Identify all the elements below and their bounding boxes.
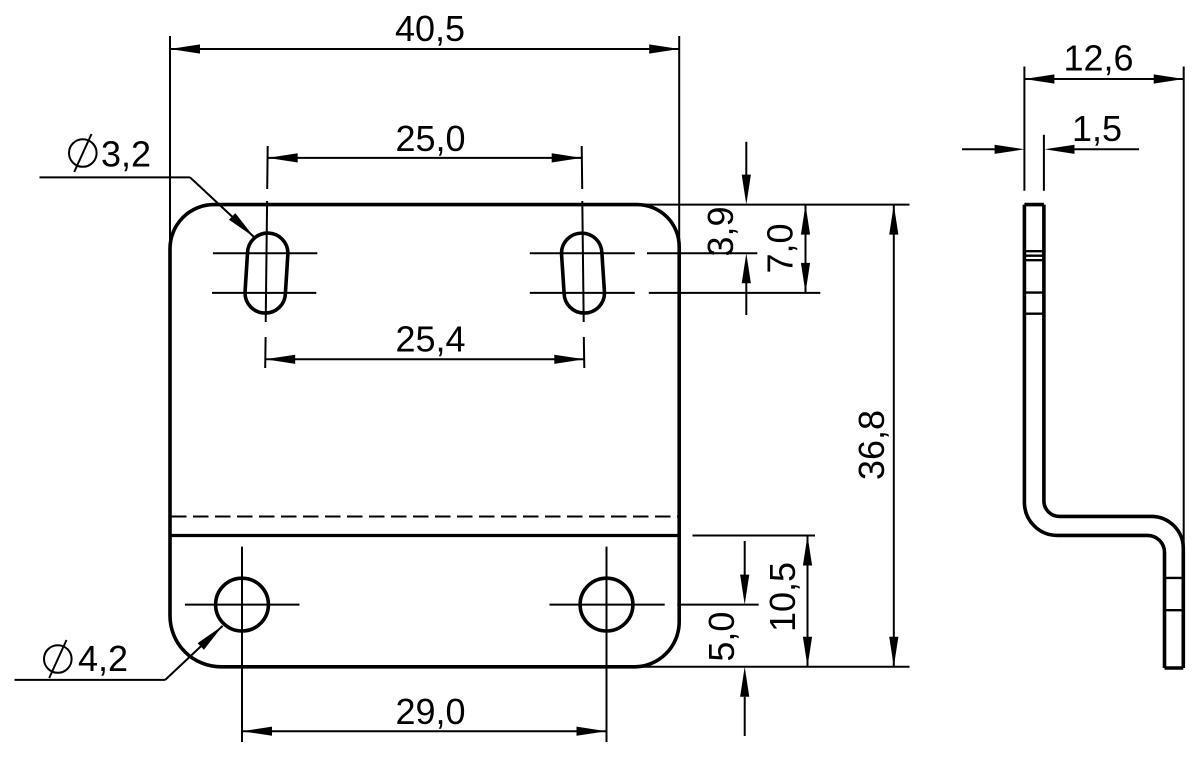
svg-text:29,0: 29,0 bbox=[395, 691, 465, 732]
side view: top end cap bbox=[1024, 203, 1044, 207]
dimension 40,5: extension lines bbox=[169, 36, 171, 260]
right hole horizontal centerline bbox=[550, 604, 665, 606]
dimension 7,0: line, arrows, text bbox=[805, 205, 807, 293]
dimension 25,4: line, arrows, text bbox=[265, 358, 584, 360]
left slot upper crossline bbox=[213, 252, 317, 254]
dimension 40,5: line, arrows, text bbox=[170, 48, 679, 50]
right slot (obround, slightly tilted) bbox=[561, 233, 604, 313]
label diameter 4,2: leader line bbox=[15, 679, 166, 681]
right slot upper crossline bbox=[530, 252, 635, 254]
left hole horizontal centerline bbox=[185, 604, 300, 606]
dimension 12,6: line, arrows, text bbox=[1024, 78, 1183, 80]
dimension 25,0: line, arrows, text bbox=[268, 157, 582, 159]
side view: inner profile (right face of top strip, step top, right face of lower strip) bbox=[1044, 205, 1183, 668]
left slot vertical centerline segments bbox=[266, 146, 269, 189]
front view: plate outline bbox=[170, 205, 679, 667]
dimension 7,0: extension line bbox=[649, 292, 821, 294]
side view: bottom end cap bbox=[1165, 666, 1184, 670]
svg-text:1,5: 1,5 bbox=[1072, 108, 1122, 149]
dimension 10,5: line, arrows, text bbox=[807, 536, 809, 667]
dimension 1,5: outside arrows and shafts bbox=[962, 148, 995, 150]
dimension 1,5: extension line bbox=[1043, 135, 1045, 191]
front view: bend tangent edge line bbox=[170, 534, 679, 537]
svg-text:3,9: 3,9 bbox=[700, 206, 741, 256]
svg-text:36,8: 36,8 bbox=[851, 410, 892, 480]
dimension 3,9: extension line bbox=[647, 252, 757, 254]
right bottom hole bbox=[580, 578, 633, 631]
right hole vertical centerline / extension to 29,0 bbox=[606, 547, 608, 742]
dimension 5,0: outside arrows and shafts bbox=[744, 541, 746, 575]
svg-text:3,2: 3,2 bbox=[101, 134, 151, 175]
top edge extension line (36,8) bbox=[637, 204, 910, 206]
dimension 5,0: extension line (hole centerline extended) bbox=[677, 604, 758, 606]
svg-text:4,2: 4,2 bbox=[78, 638, 128, 679]
label diameter 3,2: leader line bbox=[40, 176, 191, 178]
svg-text:5,0: 5,0 bbox=[701, 612, 742, 662]
svg-text:12,6: 12,6 bbox=[1063, 38, 1133, 79]
side view: hole projection marks on lower strip bbox=[1165, 577, 1184, 579]
label diameter 4,2: leader arrowhead bbox=[198, 626, 223, 650]
svg-text:40,5: 40,5 bbox=[395, 8, 465, 49]
dimension 36,8: line, arrows, text bbox=[893, 205, 895, 667]
left hole vertical centerline / extension to 29,0 bbox=[241, 547, 243, 742]
svg-text:10,5: 10,5 bbox=[762, 562, 803, 632]
svg-text:25,4: 25,4 bbox=[395, 319, 465, 360]
svg-text:7,0: 7,0 bbox=[760, 223, 801, 273]
bottom edge extension line (36,8 / 10,5 / 5,0) bbox=[634, 666, 910, 668]
left bottom hole bbox=[216, 578, 269, 631]
front view: dashed bend line bbox=[171, 516, 679, 518]
dimension 3,9: outside arrows and shafts bbox=[745, 142, 747, 175]
left slot (obround, slightly tilted) bbox=[245, 233, 288, 313]
right slot vertical centerline segments bbox=[581, 146, 584, 189]
left slot lower crossline bbox=[212, 292, 316, 294]
label diameter 4,2: diameter symbol bbox=[44, 645, 72, 673]
svg-text:25,0: 25,0 bbox=[395, 118, 465, 159]
label diameter 3,2: leader arrowhead bbox=[229, 213, 254, 237]
dimension 29,0: line, arrows, text bbox=[242, 730, 607, 732]
side view: slot projection marks on top strip bbox=[1024, 250, 1044, 252]
dimension 12,6: extension lines bbox=[1023, 67, 1025, 191]
label diameter 3,2: diameter symbol bbox=[69, 139, 97, 167]
dimension 10,5: extension line (bend line extended) bbox=[693, 535, 816, 537]
right slot lower crossline bbox=[530, 292, 635, 294]
side view: outer profile (left face of top strip, step bottom, left face of lower strip) bbox=[1024, 205, 1164, 668]
